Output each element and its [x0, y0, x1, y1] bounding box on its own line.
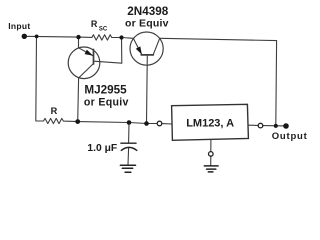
svg-text:R: R — [91, 19, 98, 29]
svg-text:or Equiv: or Equiv — [84, 96, 129, 108]
svg-text:Input: Input — [8, 21, 30, 31]
svg-text:or Equiv: or Equiv — [125, 18, 169, 30]
svg-text:MJ2955: MJ2955 — [84, 83, 127, 96]
svg-text:1.0 μF: 1.0 μF — [87, 143, 117, 154]
svg-text:R: R — [51, 106, 58, 116]
svg-text:SC: SC — [99, 26, 108, 32]
svg-text:2N4398: 2N4398 — [127, 5, 168, 18]
svg-text:Output: Output — [272, 131, 307, 142]
svg-text:LM123, A: LM123, A — [186, 118, 234, 130]
